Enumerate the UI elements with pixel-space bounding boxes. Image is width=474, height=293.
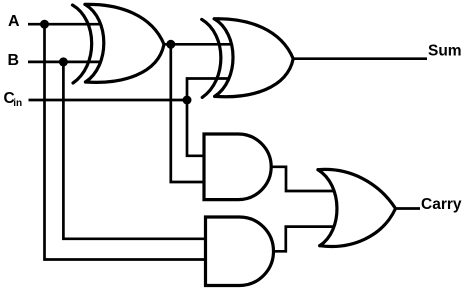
XOR gate U2 (Sum) (202, 19, 294, 98)
svg-text:Carry: Carry (421, 196, 462, 213)
svg-text:B: B (8, 52, 20, 69)
junction dot on Cin line (183, 96, 192, 105)
wire Cin down-step to AND1 upper input (187, 100, 204, 156)
AND gate U4 (A and B) (206, 217, 274, 286)
wire B input to XOR1 (28, 61, 102, 64)
wire AND2 output step to OR lower input (273, 227, 334, 252)
wire OR output to Carry (395, 207, 420, 210)
wire XOR1 output branch down to AND1 lower input (171, 44, 204, 182)
wire Cin up-step to XOR2 lower input (187, 79, 229, 101)
wire AND1 output step to OR upper input (271, 167, 335, 191)
wire A branch down to AND2 lower input (45, 24, 206, 259)
junction dot on XOR1 output (166, 40, 175, 49)
OR gate U5 (Carry) (318, 169, 396, 246)
svg-text:A: A (8, 13, 20, 30)
AND gate U3 ((A xor B) and Cin) (204, 134, 271, 200)
junction dot on B line (59, 57, 68, 66)
svg-text:in: in (13, 98, 22, 109)
wire B branch down to AND2 upper input (63, 62, 205, 239)
node Cin label (4, 90, 23, 109)
XOR gate U1 (A xor B) (73, 4, 165, 83)
junction dot on A line (40, 20, 49, 29)
wire Cin input (29, 99, 188, 102)
svg-text:Sum: Sum (428, 42, 462, 59)
wire A input to XOR1 (28, 23, 101, 26)
wire XOR2 output to Sum (293, 57, 428, 60)
wire XOR1 output to XOR2 upper input (164, 43, 232, 46)
